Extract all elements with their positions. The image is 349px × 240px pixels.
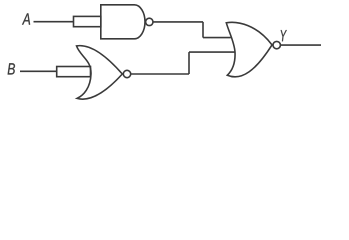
wire into OR gate top input <box>203 37 231 39</box>
wire A split box to both NAND inputs <box>74 16 101 26</box>
wire NAND output vertical drop <box>202 22 204 38</box>
wire B input <box>20 70 57 72</box>
wire Y output <box>281 44 321 46</box>
wire NOR output horizontal <box>131 73 189 75</box>
nand gate U1 output bubble <box>146 18 153 25</box>
wire A input <box>34 21 74 23</box>
wire NAND output horizontal <box>153 21 203 23</box>
wire into OR gate bottom input <box>189 51 235 53</box>
node A label <box>22 13 30 24</box>
nor gate U2 body <box>77 46 123 99</box>
nand gate U1 body <box>101 5 145 39</box>
wire NOR output vertical rise <box>188 52 190 74</box>
nor gate U3 body (output gate) <box>226 22 272 76</box>
node Y label <box>281 30 287 41</box>
nor gate U3 output bubble <box>273 41 280 48</box>
node B label <box>8 63 15 74</box>
nor gate U2 output bubble <box>123 70 130 77</box>
wire B split box to both NOR inputs <box>57 67 91 77</box>
